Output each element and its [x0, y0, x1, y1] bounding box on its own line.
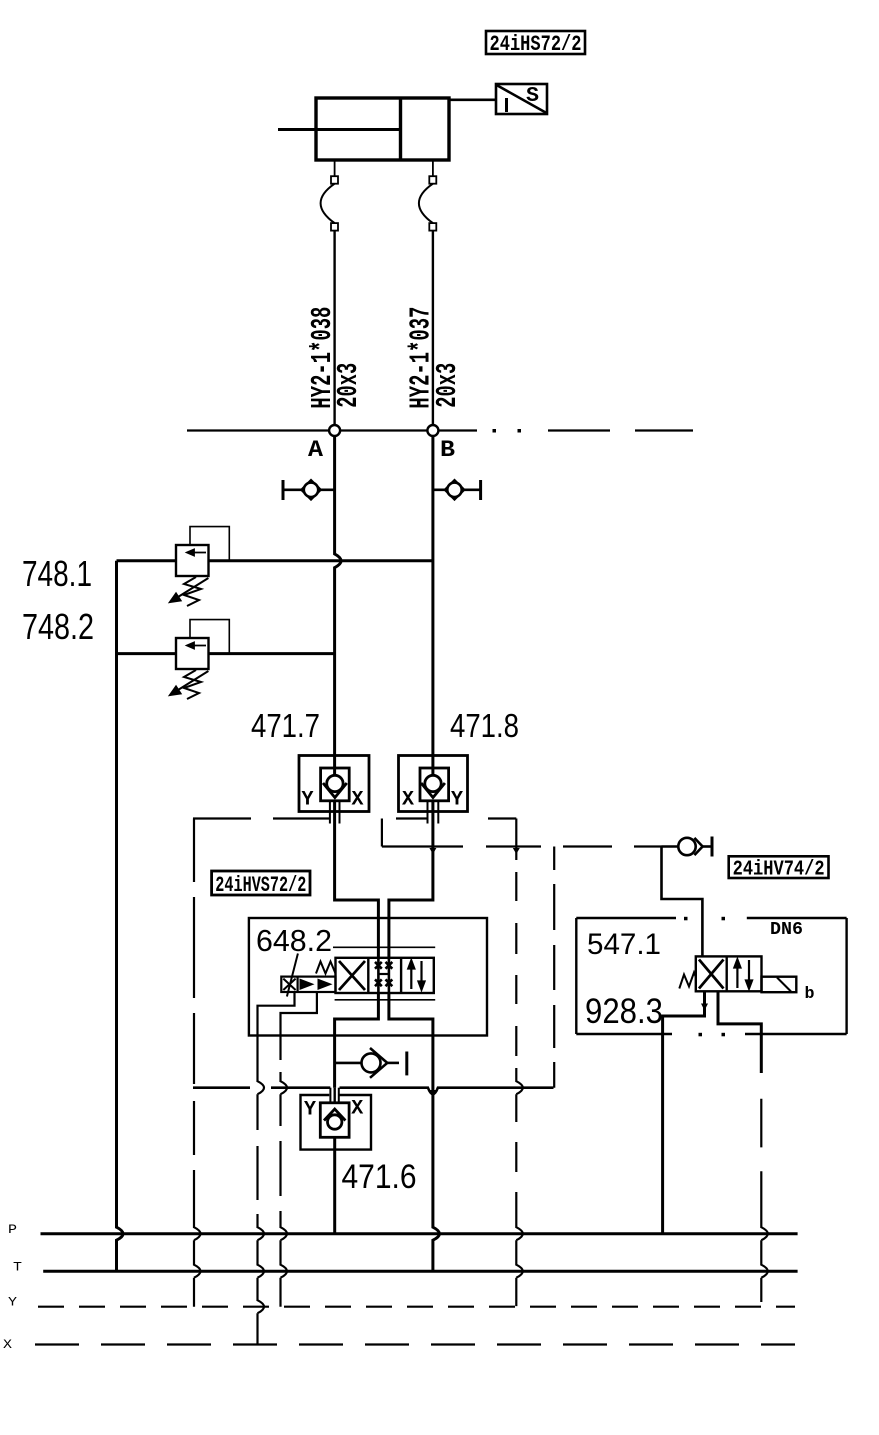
648.2 manifold box — [249, 918, 487, 1036]
label box 24iHVS72/2 — [212, 871, 310, 898]
svg-text:471.7: 471.7 — [251, 707, 320, 744]
pressure sensor S — [496, 84, 547, 114]
svg-text:A: A — [308, 437, 323, 463]
svg-text:Y: Y — [8, 1295, 17, 1310]
node B circle — [427, 425, 438, 436]
line B upper — [431, 436, 434, 756]
check valve (top right, on pilot) — [662, 837, 713, 857]
piston rod — [278, 128, 401, 131]
X position — [699, 960, 724, 989]
solenoid valve 547.1 body — [679, 956, 796, 992]
drain line left (to T) — [117, 561, 124, 1271]
dashed right edge x=516 (drain to Y) — [516, 819, 523, 1307]
line A below valve (elbow) — [335, 993, 379, 1088]
test coupling B — [433, 480, 481, 500]
547.1 box — [576, 917, 846, 1037]
relief valve 748.2 — [117, 620, 335, 699]
label box 24iHV74/2 — [729, 856, 829, 881]
subplate line below valve — [335, 999, 436, 1001]
svg-text:Y: Y — [451, 789, 463, 812]
svg-text:b: b — [805, 985, 815, 1004]
spring — [316, 962, 336, 974]
pilot strip — [281, 977, 335, 992]
line B below valve (elbow, down to T) — [389, 993, 440, 1271]
spring 748.1 — [184, 577, 201, 606]
manifold bottom edge y=1087.7 — [193, 1088, 554, 1095]
svg-text:471.6: 471.6 — [342, 1158, 417, 1196]
svg-text:P: P — [8, 1222, 17, 1237]
spring 748.2 — [184, 670, 201, 699]
dashed line x=554 (pilot branch down to manifold edge) — [553, 847, 555, 1088]
T rail — [43, 1270, 797, 1273]
spring — [679, 973, 696, 989]
547.1 left port to P — [663, 991, 708, 1233]
right position arrows — [408, 961, 414, 990]
svg-text:648.2: 648.2 — [256, 924, 332, 958]
svg-text:928.3: 928.3 — [585, 992, 663, 1031]
pilot line down to 547.1 valve — [662, 847, 703, 957]
cylinder — [278, 98, 449, 160]
machine interface line — [187, 429, 693, 433]
line A below 471.6 to P — [333, 1137, 336, 1233]
hose B (right port) — [419, 160, 436, 425]
pilot drain line (Y) from 648.2 pilot — [281, 992, 317, 1036]
hose A (left port) — [321, 160, 338, 425]
svg-text:471.8: 471.8 — [450, 707, 519, 744]
solenoid b — [762, 977, 797, 993]
svg-text:X: X — [402, 789, 414, 812]
test coupling A — [283, 480, 335, 500]
piston — [399, 98, 402, 160]
svg-text:Y: Y — [302, 789, 314, 812]
dashed pilot X line down to X rail — [258, 1036, 265, 1345]
svg-text:24iHV74/2: 24iHV74/2 — [733, 859, 825, 882]
wire cylinder to sensor — [449, 99, 496, 102]
547.1 right port to Y (dashed below box) — [718, 991, 768, 1302]
node A circle — [329, 425, 340, 436]
line B from 471.8 down to 648.2 port B — [389, 801, 433, 958]
svg-text:24iHVS72/2: 24iHVS72/2 — [215, 873, 306, 898]
pilot check valve 471.6 — [301, 1088, 372, 1150]
svg-text:748.2: 748.2 — [22, 606, 94, 647]
svg-text:748.1: 748.1 — [22, 553, 92, 594]
dashed enclosure left edge (drain to Y) — [194, 819, 201, 1307]
P rail — [41, 1232, 798, 1235]
directional valve 648.2 body — [281, 954, 434, 997]
line A from 471.7 down to 648.2 port A — [335, 801, 379, 958]
line A upper (hop over 748.1 line) — [335, 436, 342, 756]
left position X — [339, 961, 365, 990]
centre position blocked ports — [375, 962, 392, 986]
junction arrow on x=516 at pilot branch — [513, 848, 520, 854]
junction arrow on B below manifold edge — [429, 1090, 436, 1096]
relief valve 748.1 — [117, 527, 433, 606]
svg-text:B: B — [440, 437, 455, 463]
svg-text:X: X — [3, 1337, 12, 1352]
dashed enclosure top edge — [193, 817, 516, 819]
label box 24iHS72/2 — [486, 31, 585, 57]
svg-text:X: X — [352, 789, 364, 812]
svg-text:20x3: 20x3 — [431, 363, 464, 408]
svg-text:S: S — [526, 85, 539, 108]
parallel arrows position — [734, 960, 740, 989]
check valve on line A (above 471.6) — [335, 1048, 407, 1078]
pilot supply line (X) from 648.2 pilot — [258, 993, 295, 1036]
svg-text:X: X — [351, 1098, 363, 1121]
Y rail (dashed) — [38, 1306, 795, 1308]
pilot line to 547.1 (horizontal y=846.5) — [382, 819, 662, 847]
svg-text:Y: Y — [304, 1099, 316, 1122]
junction arrow on B at pilot branch — [429, 848, 436, 854]
subplate line above valve — [333, 946, 435, 948]
pilot check valve 471.7 — [299, 756, 369, 824]
svg-text:T: T — [13, 1260, 22, 1275]
dashed pilot Y line down to Y rail — [281, 1036, 288, 1307]
svg-text:547.1: 547.1 — [587, 928, 661, 961]
svg-text:20x3: 20x3 — [332, 363, 365, 408]
pilot check valve 471.8 — [399, 756, 468, 824]
X rail (dashed) — [35, 1343, 795, 1345]
svg-text:DN6: DN6 — [770, 920, 803, 940]
port lines through centre position — [377, 958, 380, 993]
svg-text:24iHS72/2: 24iHS72/2 — [490, 32, 582, 57]
